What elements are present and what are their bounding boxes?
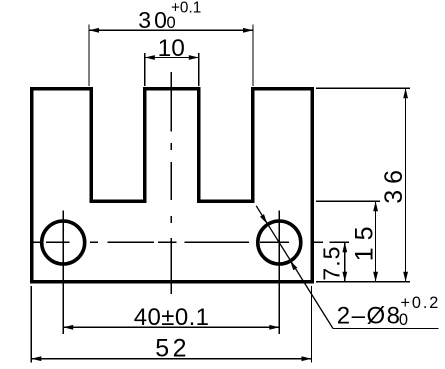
svg-text:30: 30 <box>138 7 170 33</box>
dimension 10 <box>145 35 199 86</box>
centerline hole left vertical <box>62 211 64 335</box>
dimension 30 +0.1/0 top <box>89 0 253 86</box>
dimension 15 right <box>316 201 380 281</box>
svg-text:40±0.1: 40±0.1 <box>134 304 210 331</box>
svg-text:2–Ø8: 2–Ø8 <box>337 302 402 329</box>
svg-text:+0.1: +0.1 <box>171 0 201 16</box>
svg-text:52: 52 <box>155 334 190 362</box>
hole left <box>42 221 85 264</box>
centerline hole right vertical <box>278 211 280 335</box>
svg-text:+0.2: +0.2 <box>401 294 441 312</box>
hole right <box>258 221 301 264</box>
dimension 36 right <box>316 88 410 281</box>
svg-text:0: 0 <box>167 14 176 32</box>
dimension 52 bottom <box>31 286 311 363</box>
svg-text:15: 15 <box>351 219 379 261</box>
svg-text:10: 10 <box>158 35 185 62</box>
leader 2-diam8 +0.2/0 <box>256 206 440 330</box>
dimension 7.5 right <box>319 242 348 281</box>
svg-text:0: 0 <box>399 311 408 329</box>
svg-text:36: 36 <box>380 164 408 204</box>
svg-text:7.5: 7.5 <box>319 246 345 281</box>
part outline <box>32 89 312 282</box>
centerline hole axis horizontal <box>32 241 349 243</box>
centerline vertical part axis <box>170 72 172 294</box>
dimension 40 ±0.1 bottom <box>63 304 279 331</box>
